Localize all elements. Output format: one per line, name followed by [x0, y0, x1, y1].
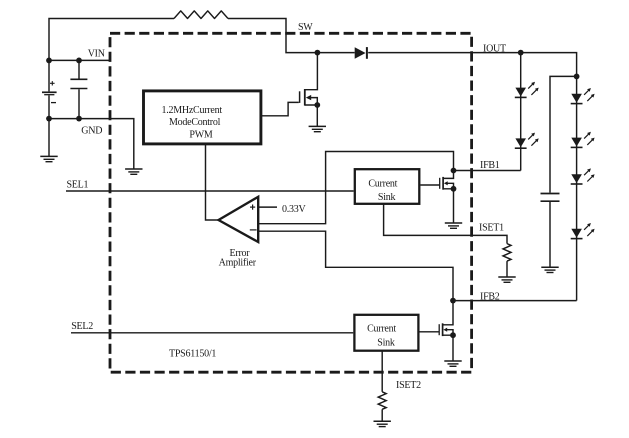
svg-text:SEL2: SEL2 [71, 321, 93, 332]
svg-text:ISET1: ISET1 [479, 223, 504, 234]
svg-text:Current: Current [368, 179, 397, 190]
svg-text:Amplifier: Amplifier [219, 258, 257, 269]
svg-text:Sink: Sink [378, 192, 396, 203]
svg-text:0.33V: 0.33V [282, 204, 307, 215]
svg-text:1.2MHzCurrent: 1.2MHzCurrent [162, 105, 223, 116]
svg-text:IFB1: IFB1 [480, 160, 500, 171]
svg-text:TPS61150/1: TPS61150/1 [169, 349, 216, 360]
svg-text:SW: SW [298, 22, 313, 33]
svg-text:ISET2: ISET2 [396, 380, 421, 391]
svg-text:ModeControl: ModeControl [169, 117, 221, 128]
svg-text:GND: GND [81, 125, 102, 136]
svg-text:VIN: VIN [88, 48, 105, 59]
svg-text:Current: Current [367, 324, 396, 335]
svg-text:SEL1: SEL1 [67, 179, 89, 190]
svg-text:IOUT: IOUT [483, 44, 506, 55]
svg-text:IFB2: IFB2 [480, 291, 500, 302]
svg-text:Sink: Sink [377, 338, 395, 349]
svg-text:PWM: PWM [189, 129, 213, 140]
